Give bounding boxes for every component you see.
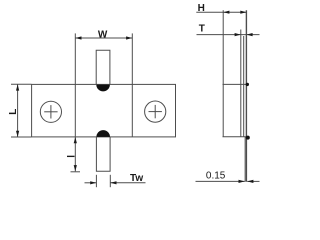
hole right: [145, 101, 166, 122]
side top edge: [223, 83, 247, 85]
dimension H: [196, 11, 246, 13]
top lead: [96, 50, 110, 84]
top dome: [96, 85, 110, 92]
dome bumps side: [246, 83, 249, 86]
dimension l: [71, 137, 81, 172]
flange top face / T extension: [240, 30, 242, 138]
body left edge / W extension: [74, 33, 76, 137]
hole left: [40, 101, 61, 122]
side view: [223, 10, 247, 182]
dimension W: [75, 37, 132, 39]
flange outline: [32, 84, 176, 136]
bottom lead: [96, 137, 110, 171]
svg-text:0.15: 0.15: [206, 171, 226, 182]
bottom dome: [96, 130, 110, 137]
flange bottom face / extensions: [245, 10, 247, 182]
cap top edge / H extension: [222, 10, 224, 137]
dimension L: [11, 84, 31, 137]
lead plane line: [243, 36, 245, 137]
dimension T: [197, 34, 260, 36]
svg-text:W: W: [98, 29, 108, 40]
body right edge / W extension: [131, 33, 133, 137]
dimension Tw: [85, 175, 146, 187]
svg-text:T: T: [199, 24, 205, 35]
svg-text:Tw: Tw: [130, 173, 143, 184]
dimension 0.15: [196, 180, 260, 182]
svg-text:L: L: [8, 109, 19, 115]
svg-text:H: H: [198, 3, 205, 14]
side bottom edge: [223, 136, 247, 138]
svg-text:l: l: [67, 155, 78, 158]
